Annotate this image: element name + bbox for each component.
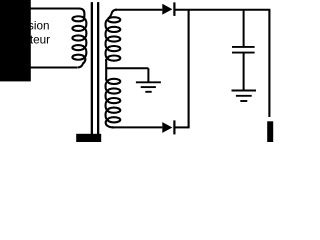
wire center tap <box>106 67 148 69</box>
label "Tension secteur" <box>9 20 50 47</box>
capacitor C1 <box>232 47 255 53</box>
wire right edge vertical <box>268 10 270 117</box>
redaction box left <box>0 0 31 81</box>
diode D1 <box>162 2 174 16</box>
transformer core line right <box>97 2 99 134</box>
wire primary top <box>24 8 68 10</box>
wire diode D2 output <box>175 126 189 128</box>
redaction bar bottom center <box>76 134 101 142</box>
wire tap to ground <box>147 68 149 82</box>
wire output junction vertical <box>188 10 190 128</box>
redaction bar bottom right <box>267 121 273 142</box>
wire secondary top to diode D1 <box>115 9 162 11</box>
diode D2 <box>162 120 174 134</box>
transformer core line left <box>91 2 93 134</box>
inductor L2 transformer secondary winding <box>106 10 121 128</box>
wire capacitor top lead <box>243 10 245 46</box>
ground G1 center tap <box>136 82 161 92</box>
wire top rail <box>175 9 270 11</box>
wire capacitor bottom lead <box>243 54 245 90</box>
wire primary bottom <box>24 67 77 69</box>
wire secondary bottom to diode D2 <box>112 126 162 128</box>
ground G2 under capacitor <box>232 91 257 102</box>
inductor L1 transformer primary winding <box>68 9 86 68</box>
